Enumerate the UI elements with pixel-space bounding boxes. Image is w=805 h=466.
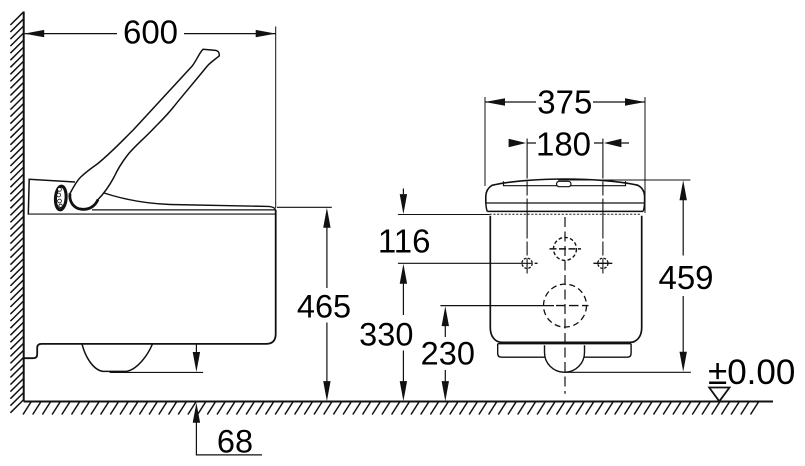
dimension 68: extension line at trap bottom [110,371,203,373]
dimension 230: ref line [440,305,554,307]
top circle horizontal crosshair [550,248,582,250]
dimension 459: dim line [682,200,684,352]
dimension 375: extension lines [485,97,645,213]
svg-text:180: 180 [536,126,591,163]
datum triangle [709,388,729,402]
dimension 330: lower arrow [400,381,407,401]
dimension 330: dim line [402,282,404,382]
dimension 116: top ref line [398,214,490,216]
front lid bottom line [486,202,645,204]
left bolt [522,258,532,268]
dimension 459: bottom extension line [566,371,691,373]
supply circle (dashed) [544,284,587,327]
dimension 116: upper arrow w tail [402,189,404,195]
dimension 375: dim line [485,101,645,103]
dimension 465: extension line [277,206,332,208]
side view: seat top wedge [97,191,276,210]
dimension 375: arrows [485,98,645,105]
front lid recess line [504,181,626,186]
svg-text:459: 459 [658,259,713,296]
svg-text:230: 230 [421,336,475,372]
hinge holes [58,188,62,192]
centerline [564,217,566,394]
floor line [24,401,773,403]
floor hatch [23,402,759,415]
svg-text:465: 465 [297,288,351,324]
dimension 330: shared upper arrow [400,264,407,284]
dimension 68: upper arrow w tail [195,344,197,352]
side view: hinge oval [55,186,67,210]
dimension 180: arrows outside [509,139,622,148]
dimension 459: top extension line [558,179,690,181]
front outlet [545,345,585,372]
dimension 68: lower arrow and leader [193,403,200,423]
svg-text:375: 375 [537,84,592,121]
front lid seat lower line [486,203,645,211]
svg-text:±0.00: ±0.00 [708,353,795,392]
svg-text:600: 600 [123,14,178,51]
dimension 459: arrows [680,180,687,371]
front foot band [498,344,631,358]
dimension 600: arrows [24,30,276,37]
side view: ceramic rim line [29,213,276,215]
svg-text:68: 68 [217,423,253,459]
dimension 180: extension lines [527,139,603,274]
dimension 600: dim line [25,33,276,35]
side view: lid bottom thick edge [70,194,98,210]
svg-text:330: 330 [359,317,413,353]
front lid outline [486,179,645,203]
side view: trap bump under body [82,344,153,372]
front lid button [557,181,572,186]
wall [23,12,25,402]
top circle (dashed) [554,237,577,260]
side view: open lid [70,49,219,209]
wall hatch [10,12,23,413]
side view: ceramic body outline [24,210,276,358]
svg-text:116: 116 [378,223,431,260]
dimension 600: right extension line [275,27,277,209]
dimension 230: dim line [444,326,446,382]
front body outline [490,216,641,342]
side view: seat back block [28,179,75,214]
dimension 116: bottom ref line [398,262,533,264]
side view: seat bottom line [92,209,276,211]
right bolt [598,258,608,268]
dimension 230: arrows [442,306,449,401]
front ceramic rim shadow line [490,213,642,215]
dimension 465: arrows [323,208,330,401]
dimension 465: dim line [326,226,328,382]
